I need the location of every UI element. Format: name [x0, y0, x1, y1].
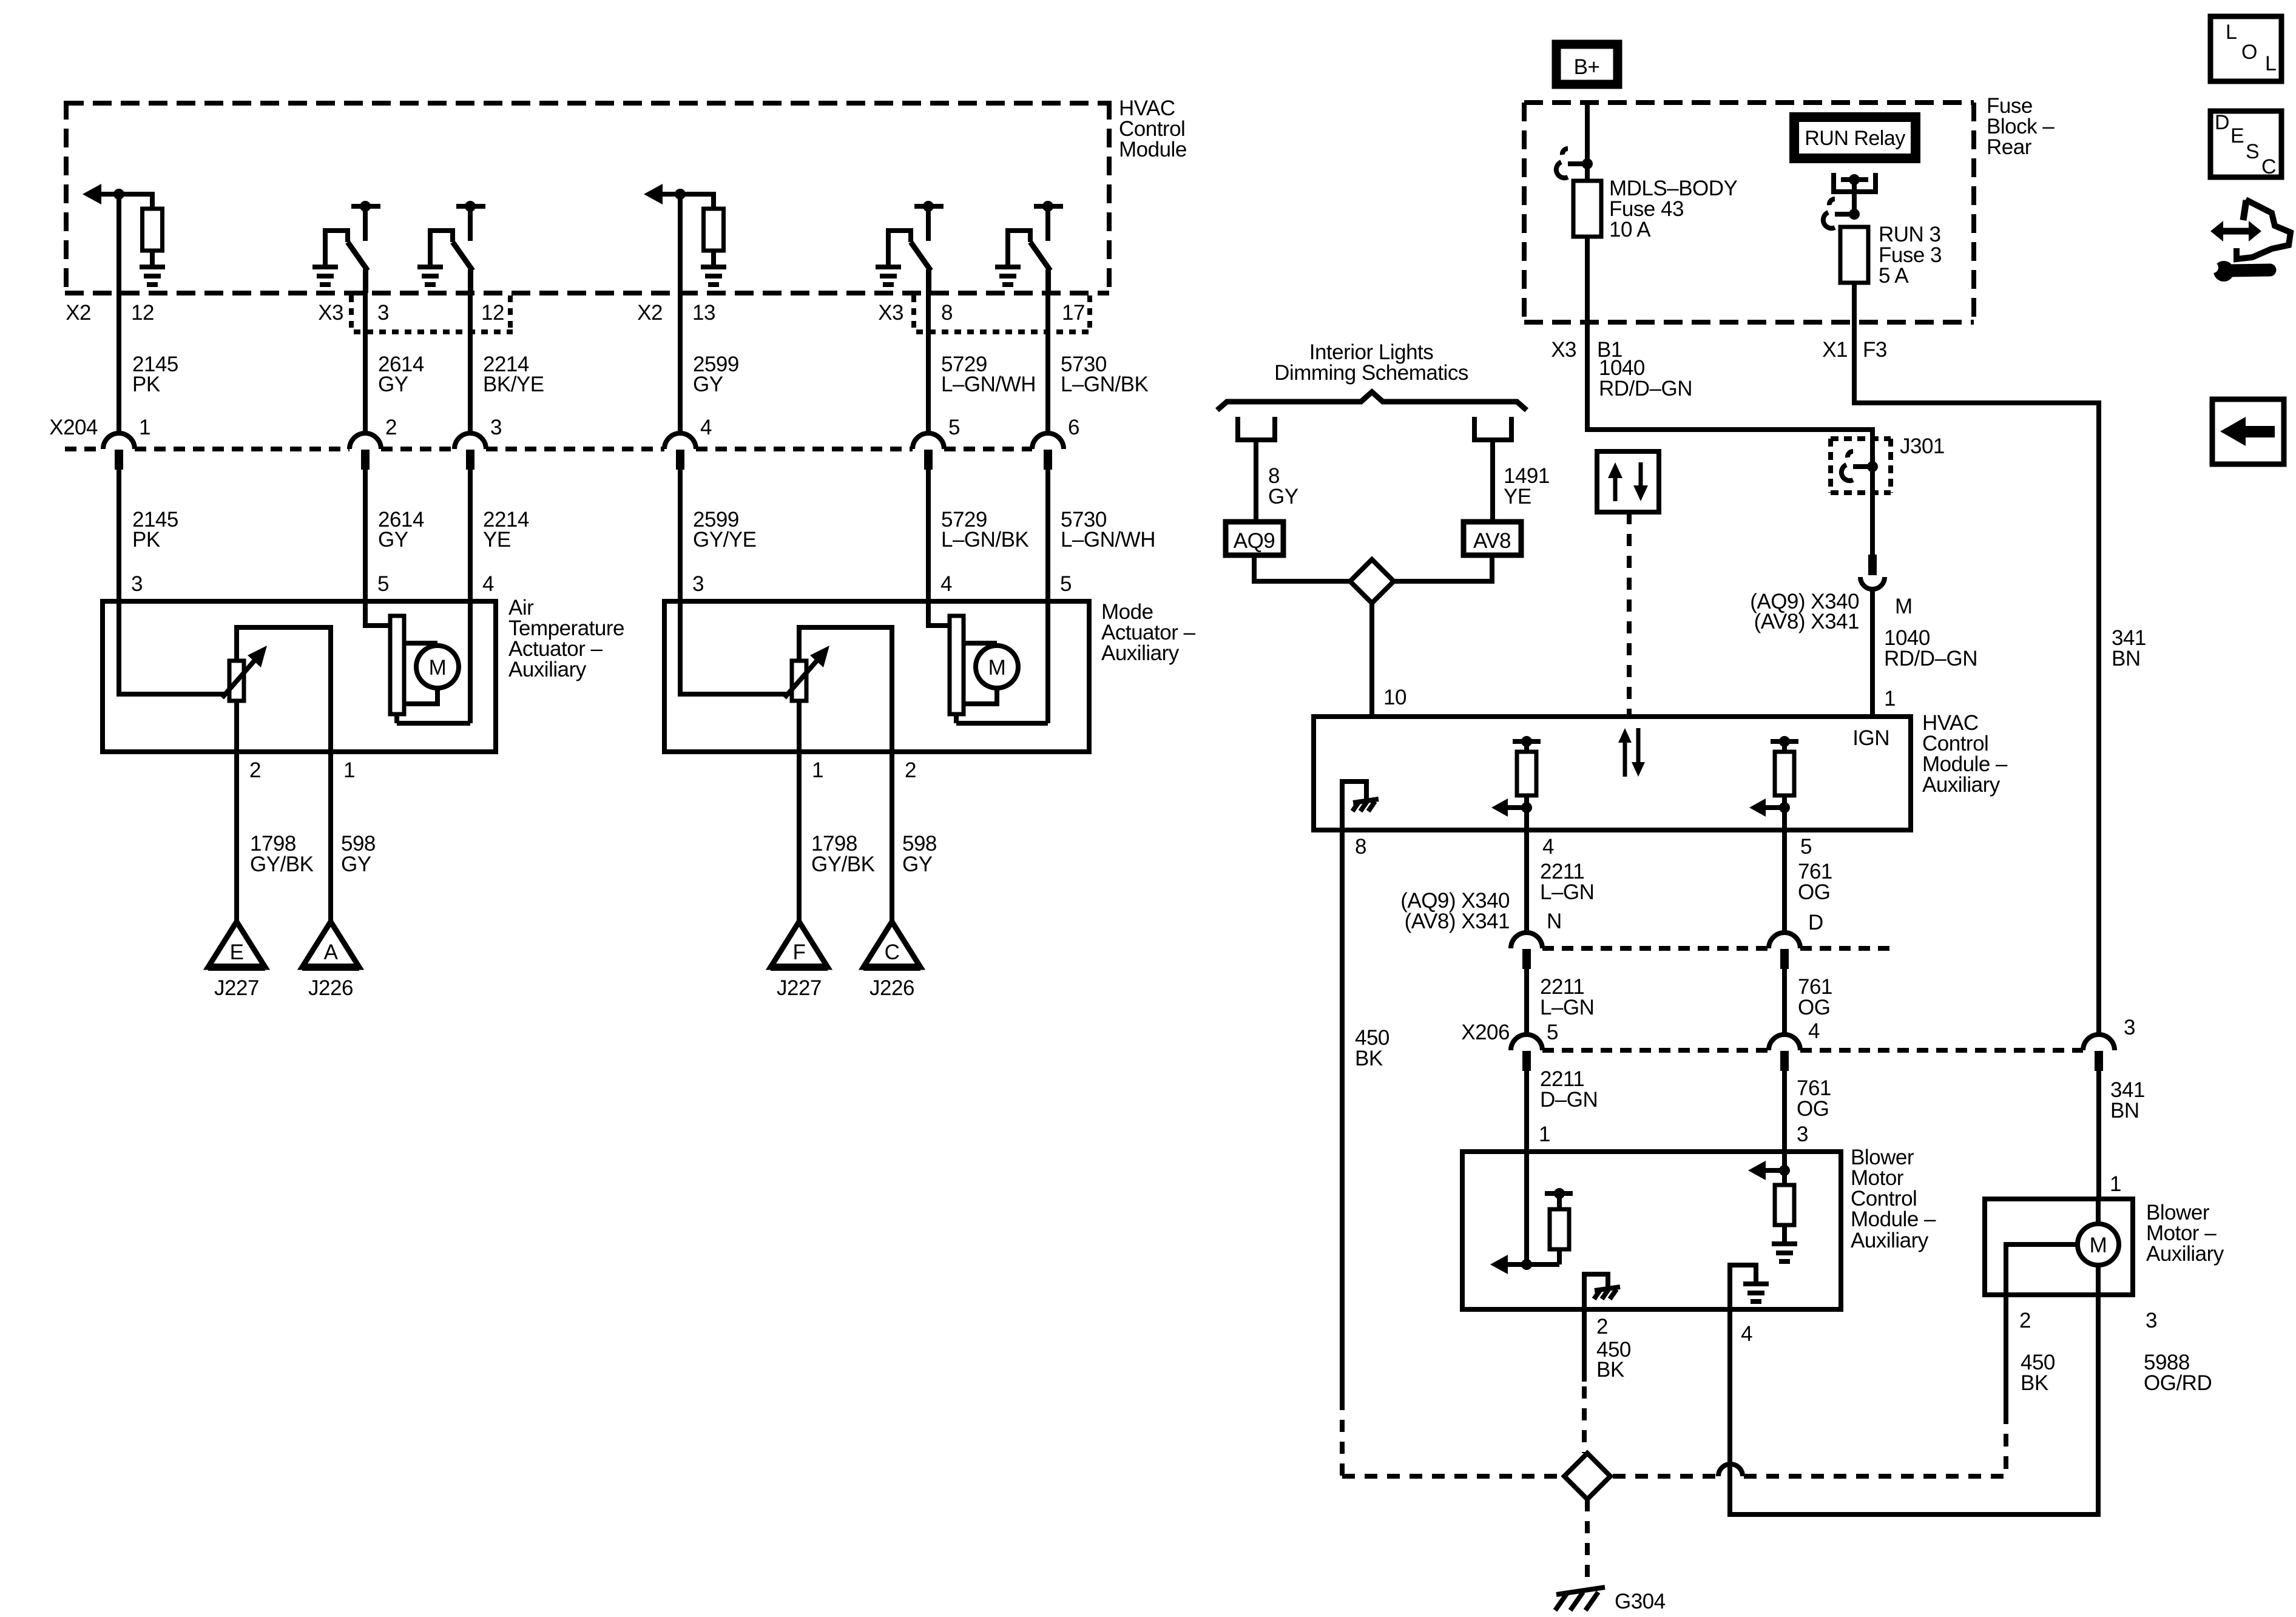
relay coil bracket: [1834, 173, 1876, 214]
resistor pin 5 internal with arrow: [1749, 736, 1798, 830]
label HVAC Control Module: [1119, 96, 1187, 161]
label X206 pin 4: [1808, 1019, 1820, 1043]
wire 1491 YE: [1493, 442, 1550, 519]
switch S-w3 with ground: [417, 201, 485, 293]
svg-text:12: 12: [131, 301, 154, 325]
label X206 pin 5: [1461, 1021, 1558, 1044]
label X204: [49, 416, 98, 439]
connector D: [1769, 933, 1800, 969]
dashed connector line X340: [1542, 946, 1890, 951]
wire 2211 D-GN lower: [1527, 1067, 1598, 1152]
svg-text:L–GN: L–GN: [1540, 996, 1594, 1019]
svg-text:GY: GY: [378, 373, 408, 396]
svg-text:L: L: [2265, 52, 2276, 75]
svg-text:Auxiliary: Auxiliary: [508, 658, 587, 681]
connector J301 dashed box: [1831, 439, 1891, 493]
svg-text:3: 3: [2146, 1309, 2157, 1332]
svg-text:3: 3: [1797, 1122, 1808, 1146]
wire air pin2 1798 GY/BK: [237, 752, 314, 922]
svg-text:L–GN/BK: L–GN/BK: [941, 528, 1028, 552]
svg-text:GY: GY: [378, 528, 408, 552]
svg-text:12: 12: [481, 301, 504, 325]
up down arrows internal: [1618, 728, 1645, 777]
svg-text:2: 2: [249, 758, 261, 782]
svg-text:M: M: [1895, 595, 1913, 618]
svg-text:2: 2: [905, 758, 916, 782]
svg-text:L–GN/BK: L–GN/BK: [1061, 373, 1148, 396]
svg-text:BK: BK: [1355, 1047, 1383, 1070]
svg-text:8: 8: [941, 301, 953, 325]
connector X204 pin 6: [1032, 416, 1079, 470]
label X2 pin 13: [637, 301, 715, 325]
svg-text:J227: J227: [777, 976, 822, 1000]
label X3 B1: [1551, 338, 1622, 362]
svg-text:GY: GY: [693, 373, 723, 396]
label X3 pin 3 and 12 with dotted box: [318, 295, 513, 332]
svg-text:5 A: 5 A: [1879, 264, 1909, 288]
label Fuse Block - Rear: [1987, 94, 2055, 159]
svg-text:Module: Module: [1119, 138, 1187, 161]
svg-text:PK: PK: [132, 528, 160, 552]
wire mode pin1 1798 GY/BK: [799, 752, 875, 922]
box AQ9: [1226, 522, 1283, 555]
connector X204 pin 3: [454, 416, 502, 470]
connector X204 pin 1: [103, 416, 150, 470]
svg-text:3: 3: [692, 572, 704, 596]
svg-text:Auxiliary: Auxiliary: [1922, 773, 2001, 797]
svg-text:3: 3: [2124, 1016, 2135, 1039]
svg-text:5: 5: [1800, 835, 1812, 859]
svg-text:D: D: [1808, 911, 1823, 934]
fuse RUN 3 Fuse 3 5A: [1840, 223, 1942, 288]
svg-text:X204: X204: [49, 416, 98, 439]
svg-text:OG/RD: OG/RD: [2144, 1371, 2212, 1395]
wire B+ to fuse 43: [1585, 102, 1590, 181]
svg-text:F: F: [793, 940, 806, 964]
fuse block rear box (dashed): [1524, 103, 1974, 322]
svg-text:2: 2: [1596, 1315, 1608, 1338]
wire 341 BN lower: [2099, 1071, 2145, 1199]
wire 2214 BK/YE upper: [470, 269, 544, 449]
potentiometer and motor M inside mode actuator: [678, 601, 1048, 752]
resistor internal BMCM pin1 branch: [1490, 1152, 1573, 1274]
svg-text:J226: J226: [869, 976, 914, 1000]
wire 2145 PK upper: [119, 194, 178, 449]
terminal clip right: [1474, 417, 1511, 461]
svg-text:1: 1: [1884, 687, 1896, 711]
svg-text:1: 1: [139, 416, 150, 439]
wire air pin1 598 GY: [331, 752, 376, 922]
svg-text:BK: BK: [1596, 1358, 1624, 1382]
svg-text:O: O: [2241, 41, 2257, 64]
hop arc over 5988 wire: [1718, 1464, 1743, 1476]
wire F3 to 341 BN corner: [1854, 283, 2099, 1037]
label Mode Actuator - Auxiliary: [1101, 600, 1196, 665]
svg-text:3: 3: [490, 416, 502, 439]
wire 2145 PK lower: [119, 467, 178, 601]
svg-text:(AV8) X341: (AV8) X341: [1405, 910, 1510, 933]
svg-text:S: S: [2246, 140, 2259, 163]
label Interior Lights Dimming Schematics: [1274, 340, 1468, 385]
wire fuse43 to X3 B1: [1587, 237, 1872, 555]
svg-text:J227: J227: [214, 976, 259, 1000]
connector X204 pin 2: [349, 416, 397, 470]
svg-text:B+: B+: [1574, 55, 1600, 79]
chassis ground pin 8 internal: [1342, 781, 1379, 830]
svg-text:BK: BK: [2021, 1371, 2048, 1395]
wire 2211 L-GN pin 4: [1527, 830, 1594, 1041]
svg-text:IGN: IGN: [1852, 726, 1889, 750]
svg-text:X3: X3: [1551, 338, 1576, 362]
resistor internal R-w4 with arrow and ground: [644, 184, 726, 287]
svg-text:AV8: AV8: [1473, 529, 1511, 553]
connector X204 pin 4: [664, 416, 712, 470]
svg-text:GY/BK: GY/BK: [811, 852, 875, 876]
svg-text:(AV8) X341: (AV8) X341: [1754, 610, 1859, 633]
svg-text:GY: GY: [902, 852, 933, 876]
relay RUN Relay box: [1794, 117, 1916, 158]
label HVAC Control Module - Auxiliary: [1922, 711, 2008, 797]
switch S-w2 with ground: [312, 201, 380, 293]
svg-text:M: M: [988, 656, 1006, 680]
wire 5729 L-GN/WH upper: [928, 269, 1036, 449]
box Blower Motor - Auxiliary: [1985, 1199, 2133, 1295]
svg-text:3: 3: [377, 301, 389, 325]
connector X206 pin 5: [1511, 1035, 1542, 1071]
legend box L O L: [2210, 16, 2281, 81]
svg-text:L: L: [2226, 21, 2237, 44]
svg-text:17: 17: [1062, 301, 1085, 325]
label 341 BN first: [2112, 626, 2146, 670]
fuse MDLS-BODY Fuse 43 10A: [1573, 177, 1738, 241]
svg-text:E: E: [2230, 124, 2244, 147]
svg-text:PK: PK: [132, 373, 160, 396]
svg-text:Rear: Rear: [1987, 135, 2032, 159]
label IGN: [1852, 726, 1889, 750]
svg-text:C: C: [885, 940, 900, 964]
wire 450 BK BMCM pin2: [1584, 1309, 1631, 1453]
label Air Temperature Actuator - Auxiliary: [508, 596, 624, 681]
wire splice to pin 10: [1372, 603, 1406, 717]
wire 761 OG pin 5: [1784, 830, 1832, 1041]
svg-text:J301: J301: [1900, 434, 1945, 458]
svg-text:AQ9: AQ9: [1234, 529, 1275, 553]
svg-text:1: 1: [1539, 1122, 1550, 1146]
ground triangle C J226: [863, 922, 920, 1000]
wire 2211 L-GN mid: [1527, 969, 1594, 1050]
svg-text:RUN Relay: RUN Relay: [1805, 127, 1905, 150]
svg-text:D: D: [2215, 111, 2229, 134]
label Blower Motor Control Module - Auxiliary: [1851, 1146, 1936, 1252]
svg-text:GY/BK: GY/BK: [250, 852, 314, 876]
ground G304: [1555, 1587, 1666, 1613]
svg-text:2: 2: [2019, 1309, 2031, 1332]
svg-text:5: 5: [1060, 572, 1072, 596]
connector X204 dashed line: [65, 447, 1032, 451]
junction dot and inline connector hook at fuse 43: [1556, 149, 1593, 178]
legend box D E S C: [2210, 111, 2281, 178]
legend icon wrench with arrows: [2207, 200, 2291, 282]
svg-text:3: 3: [131, 572, 143, 596]
svg-text:Dimming Schematics: Dimming Schematics: [1274, 361, 1468, 385]
svg-text:GY/YE: GY/YE: [693, 528, 756, 552]
brace under dimming schematics: [1217, 392, 1527, 410]
svg-text:OG: OG: [1797, 1097, 1829, 1121]
dashed wire to G304: [1585, 1499, 1590, 1578]
ground triangle E J227: [208, 922, 265, 1000]
svg-text:L–GN: L–GN: [1540, 880, 1594, 904]
svg-text:10 A: 10 A: [1609, 218, 1651, 241]
svg-text:Auxiliary: Auxiliary: [1101, 641, 1180, 665]
svg-text:L–GN/WH: L–GN/WH: [1061, 528, 1155, 552]
ground triangle A J226: [302, 922, 359, 1000]
svg-text:F3: F3: [1863, 338, 1887, 362]
switch S-w6 with ground: [995, 201, 1063, 293]
svg-text:1: 1: [2110, 1172, 2121, 1196]
connector X204 pin 5: [913, 416, 960, 470]
dashed bus 450 BK horizontal: [1342, 1417, 2006, 1476]
svg-text:M: M: [429, 656, 447, 680]
wire AV8 to splice diamond: [1393, 555, 1492, 584]
potentiometer and motor M inside air actuator: [116, 601, 470, 752]
box Blower Motor Control Module - Auxiliary: [1462, 1152, 1841, 1309]
svg-text:OG: OG: [1798, 880, 1830, 904]
wire 2214 YE lower: [470, 467, 529, 601]
svg-text:X3: X3: [878, 301, 903, 325]
motor M blower: [2006, 1199, 2119, 1295]
svg-text:4: 4: [700, 416, 712, 439]
label X3 pins 8 17 with dotted box: [878, 295, 1092, 332]
resistor to ground BMCM pin 3 internal: [1748, 1152, 1797, 1264]
label 1040 RD/D-GN first: [1599, 356, 1692, 400]
svg-text:M: M: [2090, 1234, 2107, 1257]
box HVAC Control Module - Auxiliary: [1314, 717, 1911, 830]
svg-text:OG: OG: [1798, 996, 1830, 1019]
label J301: [1900, 434, 1945, 458]
module box HVAC Control Module (dashed): [65, 101, 1112, 295]
wire AQ9 to splice diamond: [1254, 555, 1351, 584]
wire 8 GY: [1256, 442, 1298, 519]
svg-text:Auxiliary: Auxiliary: [2146, 1242, 2224, 1266]
svg-text:4: 4: [1808, 1019, 1820, 1043]
resistor internal R-w1 with arrow and ground: [83, 184, 165, 287]
legend box left arrow: [2212, 399, 2284, 464]
svg-text:L–GN/WH: L–GN/WH: [941, 373, 1036, 396]
box AV8: [1464, 522, 1521, 555]
box up-down arrows: [1597, 451, 1659, 512]
svg-text:8: 8: [1355, 835, 1366, 859]
label X2 pin 12: [66, 301, 154, 325]
label X1 F3: [1822, 338, 1887, 362]
connector X206 pin 4: [1769, 1035, 1800, 1071]
svg-text:6: 6: [1068, 416, 1079, 439]
svg-text:G304: G304: [1615, 1590, 1666, 1613]
svg-text:C: C: [2261, 155, 2276, 178]
wire 761 OG lower: [1784, 1071, 1831, 1152]
wire mode pin2 598 GY: [892, 752, 937, 922]
svg-text:GY: GY: [341, 852, 371, 876]
svg-text:4: 4: [1741, 1322, 1752, 1346]
connector N: [1511, 933, 1542, 969]
svg-text:4: 4: [482, 572, 494, 596]
wire 2599 GY upper: [680, 194, 739, 449]
junction dot and inline hook RUN relay: [1823, 199, 1860, 228]
svg-text:J226: J226: [308, 976, 353, 1000]
svg-text:Auxiliary: Auxiliary: [1851, 1229, 1929, 1252]
earth ground BMCM pin 4 internal: [1730, 1265, 1769, 1309]
resistor pin 4 internal with arrow: [1491, 736, 1541, 830]
svg-text:X3: X3: [318, 301, 343, 325]
terminal clip left: [1238, 417, 1275, 461]
ground triangle F J227: [771, 922, 828, 1000]
wire 5729 L-GN/BK lower: [928, 467, 1028, 601]
svg-text:E: E: [230, 940, 244, 964]
box Air Temperature Actuator - Auxiliary: [103, 601, 496, 752]
svg-text:4: 4: [1542, 835, 1554, 859]
wire 450 BK pin 8: [1342, 830, 1389, 1476]
svg-text:X2: X2: [66, 301, 91, 325]
svg-text:10: 10: [1383, 686, 1406, 709]
label X340 X341 at N: [1400, 889, 1562, 933]
splice diamond dimming: [1350, 559, 1394, 603]
junction dot and inline hook J301: [1842, 451, 1878, 481]
svg-text:13: 13: [692, 301, 715, 325]
dashed wire arrows to module: [1627, 512, 1632, 717]
wire 2614 GY upper: [365, 269, 424, 449]
svg-text:A: A: [324, 940, 339, 964]
svg-text:YE: YE: [1504, 485, 1531, 508]
label D: [1808, 911, 1823, 934]
svg-text:5: 5: [1547, 1021, 1558, 1044]
svg-text:GY: GY: [1268, 485, 1298, 508]
svg-text:YE: YE: [483, 528, 511, 552]
svg-text:BN: BN: [2110, 1099, 2139, 1122]
box Mode Actuator - Auxiliary: [664, 601, 1089, 752]
splice diamond 450 BK: [1564, 1453, 1610, 1499]
svg-text:RD/D–GN: RD/D–GN: [1884, 647, 1977, 670]
svg-text:X2: X2: [637, 301, 663, 325]
wire 5988 BMCM pin4 to blower pin3: [1730, 1295, 2098, 1514]
wire 2599 GY/YE lower: [680, 467, 756, 601]
svg-text:Module –: Module –: [1851, 1207, 1936, 1231]
chassis ground BMCM pin 2 internal: [1584, 1274, 1620, 1309]
svg-text:X206: X206: [1461, 1021, 1510, 1044]
wire 2614 GY lower: [365, 467, 424, 601]
svg-text:2: 2: [385, 416, 397, 439]
svg-text:RD/D–GN: RD/D–GN: [1599, 377, 1692, 400]
wire blower pin2 450 BK: [2006, 1295, 2055, 1420]
svg-text:4: 4: [940, 572, 952, 596]
wire 1040 RD/D-GN to IGN: [1872, 589, 1977, 717]
svg-text:N: N: [1547, 910, 1562, 933]
wire 5730 L-GN/WH lower: [1048, 467, 1155, 601]
connector M X340 X341: [1750, 555, 1912, 633]
label Blower Motor - Auxiliary: [2146, 1201, 2224, 1266]
wire 5730 L-GN/BK upper: [1048, 269, 1148, 449]
svg-text:1: 1: [343, 758, 355, 782]
svg-text:BN: BN: [2112, 647, 2141, 670]
svg-text:5: 5: [377, 572, 389, 596]
svg-text:BK/YE: BK/YE: [483, 373, 544, 396]
battery feed B+ symbol: [1556, 44, 1618, 84]
wire 761 OG mid: [1784, 969, 1832, 1050]
svg-text:5: 5: [948, 416, 960, 439]
dashed connector line X206: [1542, 1048, 2083, 1053]
connector X206 pin 3 341 BN: [2083, 1016, 2135, 1071]
svg-text:X1: X1: [1822, 338, 1848, 362]
switch S-w5 with ground: [876, 201, 944, 293]
svg-text:1: 1: [812, 758, 823, 782]
label blower pin3 5988 OG/RD: [2144, 1309, 2212, 1395]
svg-text:D–GN: D–GN: [1540, 1088, 1598, 1112]
